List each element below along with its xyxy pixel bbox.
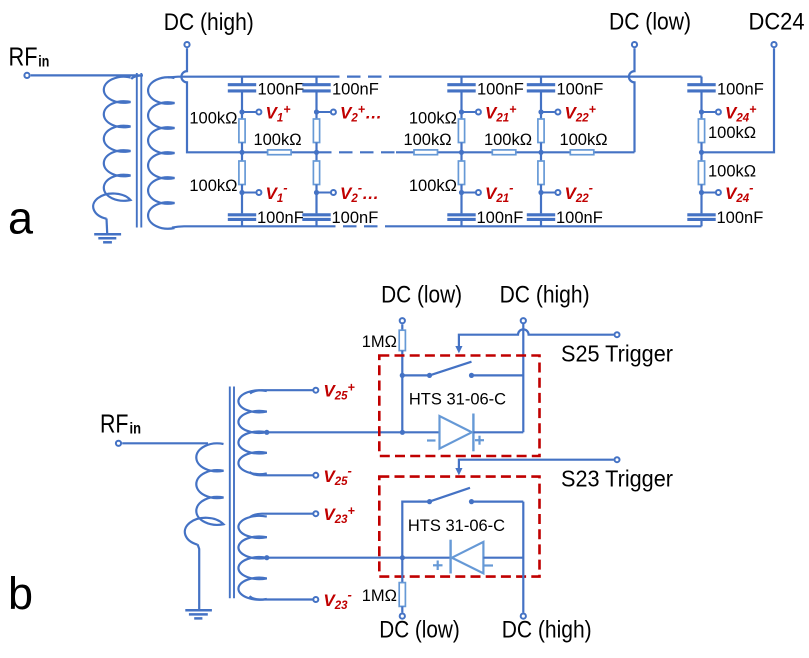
wire left vertical lower to resistor (b) (401, 558, 403, 583)
wire diode D25 cathode to right vertical (b) (473, 431, 523, 433)
capacitor C24 bottom 100nF (687, 193, 715, 227)
resistor R21-22 100k horizontal on middle rail (492, 150, 516, 155)
resistor C24 upper 100k (698, 112, 704, 152)
svg-text:RF: RF (100, 409, 129, 439)
wire bottom rail right segment (a) (389, 225, 702, 227)
label HTS 31-06-C upper (409, 391, 506, 409)
capacitor C2 top 100nF (302, 77, 330, 112)
wire tap V23- (b) (250, 596, 313, 599)
svg-text:DC (high): DC (high) (500, 282, 590, 309)
label DC (high) bottom (b) (502, 617, 592, 644)
label S25 Trigger (561, 341, 673, 367)
svg-text:100kΩ: 100kΩ (559, 131, 607, 149)
value label 100nF bottom C2 (332, 209, 379, 227)
svg-text:HTS 31-06-C: HTS 31-06-C (409, 391, 506, 409)
svg-text:100nF: 100nF (556, 209, 603, 227)
resistor R23 1M (b) (399, 583, 405, 613)
svg-text:100nF: 100nF (477, 209, 524, 227)
node middle rail junction C22 (538, 150, 543, 155)
terminal RFin (a) (24, 73, 29, 78)
label V2+ (340, 103, 382, 125)
svg-text:DC (high): DC (high) (164, 9, 254, 36)
value label 100kOhm upper C1 (189, 110, 237, 128)
transformer T2 core (b) (230, 387, 234, 599)
svg-text:100kΩ: 100kΩ (409, 177, 457, 195)
svg-text:S25 Trigger: S25 Trigger (561, 341, 673, 367)
svg-text:V21-: V21- (485, 180, 513, 205)
svg-text:V25+: V25+ (323, 381, 355, 403)
label V23+ (323, 504, 355, 526)
terminal DC (low) top (b) (400, 318, 405, 323)
resistor C2 upper 100k (313, 112, 319, 152)
value label 100kOhm lower C21 (409, 177, 457, 195)
svg-text:V22-: V22- (565, 180, 593, 205)
wire DC (low) down to middle rail with hop (a) (629, 48, 635, 152)
node V2- junction and terminal (314, 190, 336, 195)
node V1+ junction and terminal (239, 109, 261, 114)
capacitor C24 top 100nF (687, 77, 715, 112)
svg-text:100kΩ: 100kΩ (403, 131, 451, 149)
svg-text:V2+…: V2+… (340, 103, 382, 125)
resistor C24 lower 100k (698, 152, 704, 192)
terminal V25- (b) (313, 473, 318, 478)
value label 100nF bottom C24 (717, 209, 764, 227)
wire diode D23 to right vertical (b) (483, 557, 523, 559)
value label 100kOhm upper C21 (409, 110, 457, 128)
svg-text:DC24: DC24 (749, 9, 805, 36)
ground (a) (94, 219, 121, 243)
svg-text:in: in (38, 54, 49, 71)
label V22+ (565, 103, 597, 125)
wire left vertical upper box (b) (400, 351, 405, 433)
value label 100kOhm upper C24 (708, 124, 756, 142)
label V1- (266, 180, 288, 205)
label a (8, 193, 34, 244)
label V1+ (266, 103, 292, 125)
terminal V23- (b) (313, 597, 318, 602)
terminal DC (high) top (b) (521, 318, 526, 323)
svg-text:100kΩ: 100kΩ (409, 110, 457, 128)
terminal DC (low) (a) (632, 42, 637, 47)
label S23 Trigger (561, 465, 673, 491)
switch S23 enclosure dashed box (379, 477, 539, 577)
label V21- (485, 180, 513, 205)
value label 100nF bottom C21 (477, 209, 524, 227)
svg-text:a: a (8, 193, 34, 244)
node middle rail junction C2 (314, 150, 319, 155)
value label 100nF top C1 (258, 81, 305, 99)
resistor C21 upper 100k (458, 112, 464, 152)
svg-text:V25-: V25- (323, 463, 351, 488)
value label 100nF bottom C22 (556, 209, 603, 227)
label RFin (b) (100, 409, 141, 439)
svg-text:DC (low): DC (low) (381, 282, 462, 309)
transformer T1 primary winding (a) (93, 75, 143, 218)
capacitor C22 bottom 100nF (527, 193, 555, 227)
svg-text:b: b (8, 568, 33, 619)
label V2- (340, 180, 379, 205)
wire middle rail dashed segment (a) (318, 151, 396, 153)
node V1- junction and terminal (239, 190, 261, 195)
value label 100nF top C21 (477, 81, 524, 99)
terminal S23 trigger (b) (615, 457, 620, 462)
value label 1MOhm bottom (b) (362, 587, 397, 605)
diode D25 (b) (440, 414, 474, 452)
capacitor C21 top 100nF (447, 77, 475, 112)
polarity labels diode D25 (427, 436, 484, 445)
transformer T2 primary winding (b) (185, 443, 224, 544)
svg-text:in: in (130, 421, 142, 438)
node middle rail junction C1 (239, 150, 244, 155)
wire DC (high) down right vertical with hop (b) (522, 323, 524, 432)
svg-text:DC (high): DC (high) (502, 617, 592, 644)
value label 100nF bottom C1 (257, 209, 304, 227)
wire tap V23+ (b) (250, 514, 313, 517)
svg-text:100kΩ: 100kΩ (253, 131, 301, 149)
terminal S25 trigger (b) (615, 332, 620, 337)
terminal V25+ (b) (313, 388, 318, 393)
terminal V23+ (b) (313, 511, 318, 516)
label V21+ (485, 103, 517, 125)
value label 100nF top C22 (557, 81, 604, 99)
label V25- (323, 463, 351, 488)
label V24- (725, 180, 753, 205)
resistor C1 lower 100k (239, 152, 245, 192)
diode D23 (b) (451, 540, 484, 574)
wire RFin to transformer primary (b) (122, 442, 208, 444)
svg-text:100nF: 100nF (477, 81, 524, 99)
transformer T2 secondary winding S25 (b) (238, 390, 266, 474)
node V22- junction and terminal (538, 190, 560, 195)
label V24+ (725, 103, 757, 125)
capacitor C21 bottom 100nF (447, 193, 475, 227)
svg-text:V1+: V1+ (266, 103, 292, 125)
resistor C21 lower 100k (458, 152, 464, 192)
capacitor C22 top 100nF (527, 77, 555, 112)
svg-text:V24+: V24+ (725, 103, 757, 125)
svg-text:100kΩ: 100kΩ (484, 131, 532, 149)
svg-text:V23+: V23+ (323, 504, 355, 526)
node V21- junction and terminal (459, 190, 481, 195)
svg-text:100kΩ: 100kΩ (189, 177, 237, 195)
value label 100kOhm R22-23 (559, 131, 607, 149)
resistor R22-23 100k horizontal on middle rail (570, 150, 594, 155)
svg-text:100nF: 100nF (557, 81, 604, 99)
ground (b) (185, 544, 212, 618)
node middle rail junction C24 (699, 150, 704, 155)
resistor C1 upper 100k (239, 112, 245, 152)
svg-text:1MΩ: 1MΩ (362, 587, 397, 605)
label RFin (a) (9, 42, 50, 72)
value label 100nF top C2 (332, 81, 379, 99)
wire S23 trigger (b) (455, 460, 613, 476)
node V22+ junction and terminal (538, 109, 560, 114)
terminal DC (high) (a) (184, 42, 189, 47)
value label 100kOhm R20 (403, 131, 451, 149)
value label 1MOhm top (b) (362, 333, 397, 351)
switch S25 contacts and blade (402, 362, 523, 378)
terminal DC24 (a) (771, 42, 776, 47)
svg-text:100nF: 100nF (258, 81, 305, 99)
svg-text:V2-…: V2-… (340, 180, 379, 205)
svg-text:100nF: 100nF (257, 209, 304, 227)
svg-text:V24-: V24- (725, 180, 753, 205)
capacitor C1 top 100nF (228, 77, 256, 112)
wire top rail dashed segment (a) (326, 75, 391, 77)
switch S23 contacts and blade (402, 488, 523, 558)
transformer T2 secondary winding S23 (b) (238, 516, 266, 600)
svg-text:V22+: V22+ (565, 103, 597, 125)
svg-text:100nF: 100nF (717, 81, 764, 99)
capacitor C1 bottom 100nF (228, 193, 256, 227)
value label 100kOhm R12 (253, 131, 301, 149)
label DC (high) (a) (164, 9, 254, 36)
node V24- junction and terminal (699, 190, 721, 195)
label V25+ (323, 381, 355, 403)
wire RFin to transformer primary (a) (31, 74, 140, 76)
svg-text:100nF: 100nF (717, 209, 764, 227)
resistor C22 lower 100k (538, 152, 544, 192)
svg-text:DC (low): DC (low) (609, 9, 691, 36)
label DC (low) bottom (b) (379, 617, 460, 644)
node V24+ junction and terminal (699, 109, 721, 114)
svg-text:100kΩ: 100kΩ (189, 110, 237, 128)
value label 100kOhm lower C1 (189, 177, 237, 195)
wire top rail left segment (a) (168, 75, 326, 78)
resistor R12 100k horizontal on middle rail (268, 150, 292, 155)
wire DC (high) down to middle rail with hop (a) (181, 48, 242, 152)
wire bottom rail dashed segment (a) (322, 225, 389, 227)
terminal RFin (b) (116, 441, 121, 446)
resistor C22 upper 100k (538, 112, 544, 152)
wire middle rail right segment (a) (396, 151, 635, 153)
node V2+ junction and terminal (314, 109, 336, 114)
svg-text:100kΩ: 100kΩ (708, 163, 756, 181)
wire right vertical lower box to DC (high) (b) (522, 502, 524, 613)
node V21+ junction and terminal (459, 109, 481, 114)
wire top rail right segment (a) (391, 75, 702, 77)
wire tap V25- (b) (250, 472, 313, 475)
label HTS 31-06-C lower (408, 517, 505, 535)
svg-text:RF: RF (9, 42, 38, 72)
svg-text:100nF: 100nF (332, 81, 379, 99)
node middle rail junction C21 (459, 150, 464, 155)
switch S25 enclosure dashed box (379, 356, 539, 457)
transformer T1 core (a) (137, 73, 142, 228)
svg-text:HTS 31-06-C: HTS 31-06-C (408, 517, 505, 535)
polarity labels diode D23 (433, 561, 493, 571)
svg-text:1MΩ: 1MΩ (362, 333, 397, 351)
svg-text:V1-: V1- (266, 180, 288, 205)
wire S25 trigger (b) (455, 329, 613, 353)
svg-text:V23-: V23- (323, 587, 351, 612)
value label 100kOhm R21-22 (484, 131, 532, 149)
svg-text:DC (low): DC (low) (379, 617, 460, 644)
wire center tap S25 to diode D25 (b) (264, 430, 439, 435)
svg-text:100nF: 100nF (332, 209, 379, 227)
wire middle rail solid left (a) (242, 151, 318, 153)
terminal DC (low) bottom (b) (400, 614, 405, 619)
label b (8, 568, 33, 619)
capacitor C2 bottom 100nF (302, 193, 330, 227)
label DC (low) top (b) (381, 282, 462, 309)
wire bottom rail left segment (a) (172, 226, 322, 227)
svg-text:V21+: V21+ (485, 103, 517, 125)
wire center tap S23 to diode D23 (b) (264, 555, 451, 560)
resistor R20 100k horizontal on middle rail (414, 150, 438, 155)
label V23- (323, 587, 351, 612)
wire tap V25+ (b) (250, 390, 313, 393)
label V22- (565, 180, 593, 205)
value label 100nF top C24 (717, 81, 764, 99)
svg-text:100kΩ: 100kΩ (708, 124, 756, 142)
resistor C2 lower 100k (313, 152, 319, 192)
resistor R25 1M (b) (399, 324, 405, 350)
label DC (high) top (b) (500, 282, 590, 309)
svg-text:S23 Trigger: S23 Trigger (561, 465, 673, 491)
label DC24 (a) (749, 9, 805, 36)
label DC (low) (a) (609, 9, 691, 36)
terminal DC (high) bottom (b) (521, 614, 526, 619)
wire DC24 to column 24 middle node (a) (702, 48, 775, 152)
value label 100kOhm lower C24 (708, 163, 756, 181)
transformer T1 secondary winding (a) (148, 77, 174, 228)
